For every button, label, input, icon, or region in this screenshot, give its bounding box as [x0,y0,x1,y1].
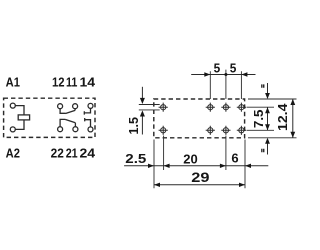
ditto mark bottom [261,149,264,152]
terminal 12 stem [60,109,65,114]
terminal 11 stem [74,109,76,111]
dim 7.5 extension lines [247,107,275,130]
dim 7.5 line [267,107,269,130]
bottom dim row 2 line [154,184,245,186]
svg-text:1.5: 1.5 [127,117,141,135]
svg-text:5: 5 [230,60,237,75]
margin arrow bottom (up at box edge) [265,138,270,144]
arrow 12.4 top (up) [290,99,295,105]
arrow 5-5 left [204,72,210,76]
svg-text:A2: A2 [6,145,20,160]
svg-text:22: 22 [51,145,64,160]
bottom dim row 1 line [124,165,268,167]
arrow 6 right [245,164,251,168]
hole 21 bottom [221,126,230,135]
coil terminal A1 [10,103,15,108]
svg-text:6: 6 [231,150,238,165]
hole 11 top [221,103,230,112]
svg-text:14: 14 [80,74,96,89]
wire coil to A2 [15,120,24,129]
svg-text:20: 20 [183,151,197,166]
svg-text:12.4: 12.4 [276,104,290,132]
movable arm 21-22 [65,119,75,122]
dim 5-5 mid dot [224,73,227,76]
arrow 29 right [239,183,245,187]
contact terminal 14 [88,103,93,108]
contact terminal 24 [88,127,93,132]
contact terminal 22 [58,127,63,132]
hole 12 top [237,103,246,112]
dim 1.5 extension lines (hole tangents) [139,105,160,110]
dim 5-5 line [191,74,255,76]
arrow 2.5 (right, at left box edge) [148,164,154,168]
arrow 7.5 top (up) [265,107,270,113]
terminal 14 NO contact [84,108,90,114]
contact terminal 12 [58,104,63,109]
coil (rectangle) [18,115,29,120]
schematic outline (dashed box, left) [4,98,95,137]
svg-text:5: 5 [214,60,221,75]
dim 1.5 line above [141,87,143,99]
margin dim line above [267,83,269,93]
arrow 20 left [164,164,170,168]
arrow 5-5 right [241,72,247,76]
dim 12.4 extension lines [248,99,297,138]
margin dim line below [267,144,269,155]
arrow 20 right / 6 left [220,164,226,168]
terminal 24 NO contact [85,118,91,127]
arrow 1.5 top (down) [140,98,145,104]
svg-text:2.5: 2.5 [125,151,146,166]
bottom extension lines [154,136,245,189]
ditto mark top [261,84,264,87]
arrow 1.5 bottom (up) [140,110,145,116]
margin arrow top (down at box edge) [265,93,270,99]
svg-text:A1: A1 [6,74,20,89]
terminal 22 stem [60,119,65,126]
wire A1 to coil [15,106,24,115]
arrow 7.5 bottom (down) [265,124,270,130]
svg-text:21: 21 [66,145,78,160]
coil terminal A2 [10,127,15,132]
hole A2 [159,126,168,135]
hole 24 bottom [206,126,215,135]
svg-text:7.5: 7.5 [252,110,266,129]
hole A1 [159,103,168,112]
hole 22 bottom [237,126,246,135]
footprint outline (dashed box, right) [154,99,245,138]
movable arm 11-12 [66,110,76,113]
dim 1.5 line below [141,116,143,135]
contact terminal 21 [73,127,78,132]
hole 14 top [206,103,215,112]
svg-text:29: 29 [191,170,209,186]
terminal 21 stem [74,123,76,127]
dim 12.4 line [292,99,294,138]
contact terminal 11 [73,104,78,109]
arrow 29 left [154,183,160,187]
svg-text:12: 12 [52,74,65,89]
arrow 12.4 bottom (down) [290,132,295,138]
dim 5-5 extension lines [210,70,241,99]
svg-text:11: 11 [66,74,77,89]
svg-text:24: 24 [80,145,96,160]
